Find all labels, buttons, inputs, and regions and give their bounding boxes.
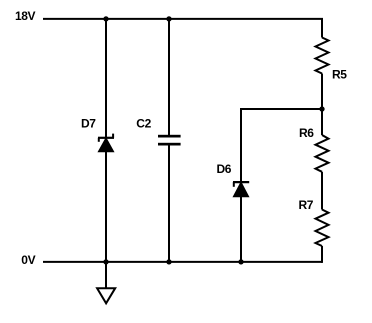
svg-text:18V: 18V bbox=[15, 9, 36, 23]
svg-text:R7: R7 bbox=[299, 198, 314, 212]
svg-text:R6: R6 bbox=[299, 126, 314, 140]
svg-text:C2: C2 bbox=[136, 117, 151, 131]
svg-text:0V: 0V bbox=[21, 253, 35, 267]
svg-text:R5: R5 bbox=[332, 67, 347, 81]
svg-text:D7: D7 bbox=[81, 117, 96, 131]
svg-text:D6: D6 bbox=[217, 162, 232, 176]
